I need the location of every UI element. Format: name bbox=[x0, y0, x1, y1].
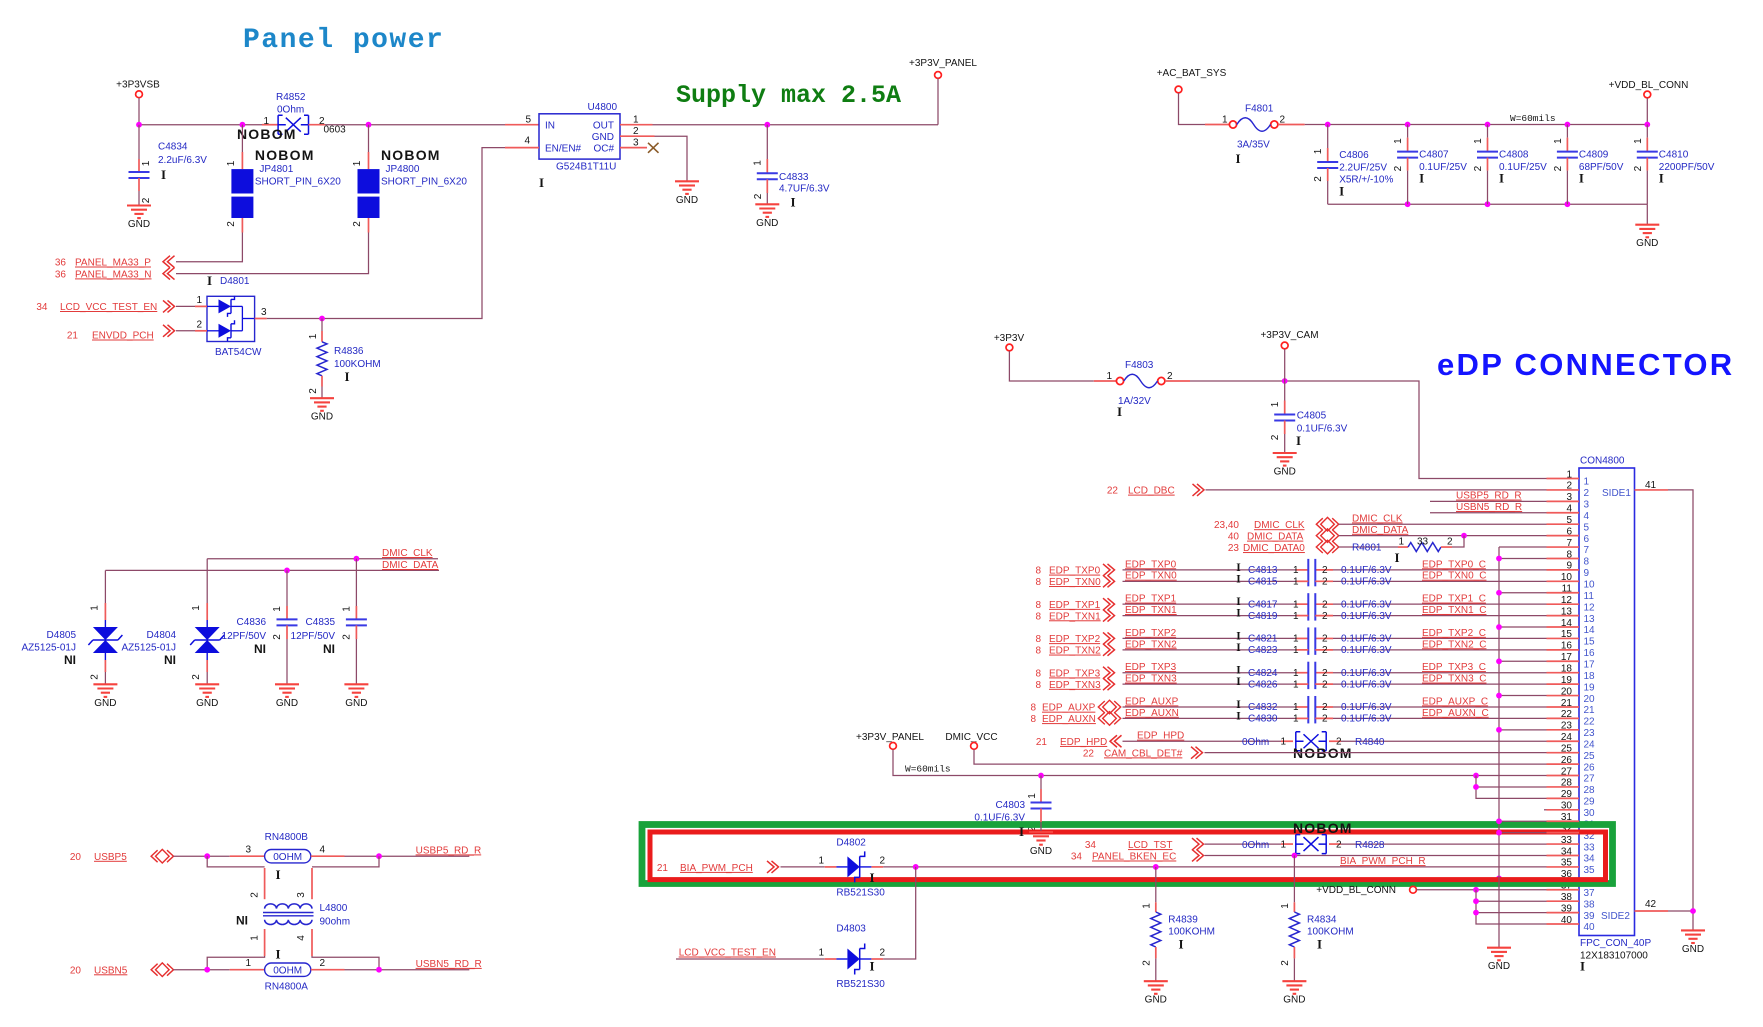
svg-text:GND: GND bbox=[128, 219, 150, 230]
svg-text:1: 1 bbox=[1293, 634, 1299, 645]
svg-text:RB521S30: RB521S30 bbox=[836, 979, 885, 990]
svg-text:I: I bbox=[1419, 171, 1424, 186]
svg-text:C4807: C4807 bbox=[1419, 150, 1449, 161]
svg-text:DMIC_DATA: DMIC_DATA bbox=[1352, 525, 1409, 536]
svg-text:NI: NI bbox=[236, 914, 248, 928]
svg-text:EDP_TXN0: EDP_TXN0 bbox=[1049, 577, 1101, 588]
svg-text:I: I bbox=[275, 947, 280, 962]
svg-text:16: 16 bbox=[1584, 648, 1596, 659]
svg-text:NI: NI bbox=[323, 642, 335, 656]
svg-text:I: I bbox=[1236, 596, 1241, 608]
svg-text:1: 1 bbox=[89, 605, 100, 611]
svg-text:2: 2 bbox=[1322, 714, 1328, 725]
svg-text:23: 23 bbox=[1228, 543, 1240, 554]
svg-text:C4806: C4806 bbox=[1339, 150, 1369, 161]
svg-text:1: 1 bbox=[308, 333, 319, 339]
svg-text:2: 2 bbox=[1322, 634, 1328, 645]
svg-text:6: 6 bbox=[1584, 534, 1590, 545]
svg-text:1: 1 bbox=[1270, 401, 1281, 407]
svg-text:DMIC_DATA: DMIC_DATA bbox=[382, 560, 439, 571]
svg-text:8: 8 bbox=[1030, 714, 1036, 725]
svg-text:2: 2 bbox=[1393, 165, 1404, 171]
svg-text:I: I bbox=[1019, 824, 1024, 839]
svg-text:NI: NI bbox=[164, 653, 176, 667]
svg-text:2: 2 bbox=[1322, 565, 1328, 576]
svg-text:2.2uF/6.3V: 2.2uF/6.3V bbox=[158, 155, 207, 166]
svg-text:2: 2 bbox=[1322, 645, 1328, 656]
svg-text:2: 2 bbox=[308, 388, 319, 394]
svg-text:DMIC_CLK: DMIC_CLK bbox=[1352, 513, 1403, 524]
svg-text:I: I bbox=[869, 870, 874, 885]
svg-text:I: I bbox=[1117, 404, 1122, 419]
svg-text:C4834: C4834 bbox=[158, 142, 188, 153]
svg-text:2: 2 bbox=[141, 197, 152, 203]
svg-text:C4821: C4821 bbox=[1248, 634, 1278, 645]
svg-text:4: 4 bbox=[524, 136, 530, 147]
svg-text:9: 9 bbox=[1584, 568, 1590, 579]
svg-text:ENVDD_PCH: ENVDD_PCH bbox=[92, 331, 154, 342]
svg-text:I: I bbox=[1236, 630, 1241, 642]
svg-text:0.1UF/6.3V: 0.1UF/6.3V bbox=[1341, 611, 1392, 622]
svg-text:I: I bbox=[1236, 573, 1241, 585]
svg-text:10: 10 bbox=[1584, 580, 1596, 591]
svg-text:R4840: R4840 bbox=[1355, 737, 1385, 748]
svg-text:AZ5125-01J: AZ5125-01J bbox=[122, 643, 176, 654]
svg-text:26: 26 bbox=[1584, 762, 1596, 773]
svg-text:4.7UF/6.3V: 4.7UF/6.3V bbox=[779, 184, 830, 195]
svg-text:1: 1 bbox=[1280, 736, 1286, 747]
svg-text:IN: IN bbox=[545, 120, 555, 131]
svg-text:EDP_TXN3_C: EDP_TXN3_C bbox=[1422, 674, 1486, 685]
svg-text:1: 1 bbox=[1142, 903, 1153, 909]
svg-text:RN4800A: RN4800A bbox=[265, 982, 309, 993]
svg-text:40: 40 bbox=[1228, 532, 1240, 543]
svg-text:0.1UF/6.3V: 0.1UF/6.3V bbox=[1341, 702, 1392, 713]
svg-text:12X183107000: 12X183107000 bbox=[1580, 950, 1648, 961]
svg-text:GND: GND bbox=[1030, 846, 1052, 857]
svg-text:1: 1 bbox=[250, 935, 261, 941]
svg-text:I: I bbox=[1235, 151, 1240, 166]
svg-text:2200PF/50V: 2200PF/50V bbox=[1659, 162, 1715, 173]
svg-text:SHORT_PIN_6X20: SHORT_PIN_6X20 bbox=[255, 177, 341, 188]
svg-text:+3P3VSB: +3P3VSB bbox=[116, 80, 160, 91]
svg-text:39: 39 bbox=[1584, 911, 1596, 922]
svg-text:EDP_TXP1: EDP_TXP1 bbox=[1125, 594, 1177, 605]
svg-text:W=60mils: W=60mils bbox=[905, 764, 951, 775]
svg-text:1: 1 bbox=[1293, 645, 1299, 656]
svg-text:EDP_TXN1: EDP_TXN1 bbox=[1049, 611, 1101, 622]
svg-text:23: 23 bbox=[1584, 728, 1596, 739]
svg-text:1: 1 bbox=[1313, 148, 1324, 154]
svg-text:FPC_CON_40P: FPC_CON_40P bbox=[1580, 938, 1651, 949]
svg-text:C4808: C4808 bbox=[1499, 150, 1529, 161]
svg-text:100KOHM: 100KOHM bbox=[1168, 927, 1215, 938]
svg-text:DMIC_DATA: DMIC_DATA bbox=[1247, 532, 1304, 543]
svg-text:34: 34 bbox=[1071, 851, 1083, 862]
svg-text:EN/EN#: EN/EN# bbox=[545, 143, 582, 154]
svg-text:2: 2 bbox=[1553, 165, 1564, 171]
svg-text:EDP_AUXN_C: EDP_AUXN_C bbox=[1422, 708, 1489, 719]
svg-text:2: 2 bbox=[196, 320, 202, 331]
svg-text:+3P3V_PANEL: +3P3V_PANEL bbox=[856, 732, 924, 743]
svg-text:0.1UF/25V: 0.1UF/25V bbox=[1419, 162, 1467, 173]
svg-text:F4801: F4801 bbox=[1245, 104, 1274, 115]
svg-text:3: 3 bbox=[633, 137, 639, 148]
svg-text:29: 29 bbox=[1584, 797, 1596, 808]
svg-text:D4804: D4804 bbox=[147, 630, 177, 641]
svg-text:2: 2 bbox=[1280, 960, 1291, 966]
svg-text:BAT54CW: BAT54CW bbox=[215, 347, 262, 358]
svg-text:PANEL_MA33_P: PANEL_MA33_P bbox=[75, 258, 151, 269]
svg-text:1A/32V: 1A/32V bbox=[1118, 396, 1151, 407]
svg-text:2: 2 bbox=[753, 193, 764, 199]
svg-text:0.1UF/6.3V: 0.1UF/6.3V bbox=[974, 813, 1025, 824]
svg-text:0Ohm: 0Ohm bbox=[1242, 840, 1269, 851]
svg-text:C4809: C4809 bbox=[1579, 150, 1609, 161]
svg-text:2: 2 bbox=[1142, 960, 1153, 966]
svg-text:1: 1 bbox=[818, 948, 824, 959]
svg-text:2: 2 bbox=[1313, 176, 1324, 182]
svg-text:EDP_TXN3: EDP_TXN3 bbox=[1049, 680, 1101, 691]
svg-text:0603: 0603 bbox=[324, 125, 347, 136]
svg-text:1: 1 bbox=[1293, 611, 1299, 622]
svg-text:C4813: C4813 bbox=[1248, 565, 1278, 576]
svg-text:I: I bbox=[1178, 937, 1183, 952]
svg-text:13: 13 bbox=[1584, 614, 1596, 625]
svg-text:1: 1 bbox=[818, 856, 824, 867]
svg-text:4: 4 bbox=[296, 935, 307, 941]
svg-text:U4800: U4800 bbox=[588, 102, 618, 113]
svg-text:USBP5_RD_R: USBP5_RD_R bbox=[1456, 491, 1522, 502]
svg-text:EDP_TXN2: EDP_TXN2 bbox=[1049, 646, 1101, 657]
svg-text:R4852: R4852 bbox=[276, 92, 306, 103]
svg-text:2: 2 bbox=[250, 892, 261, 898]
svg-text:2: 2 bbox=[226, 221, 237, 227]
svg-text:I: I bbox=[790, 195, 795, 210]
svg-text:21: 21 bbox=[657, 863, 669, 874]
svg-text:23,40: 23,40 bbox=[1214, 520, 1239, 531]
svg-text:24: 24 bbox=[1584, 739, 1596, 750]
svg-text:EDP_HPD: EDP_HPD bbox=[1137, 731, 1184, 742]
svg-text:C4817: C4817 bbox=[1248, 599, 1278, 610]
svg-text:0Ohm: 0Ohm bbox=[277, 105, 304, 116]
svg-text:C4805: C4805 bbox=[1297, 411, 1327, 422]
svg-text:20: 20 bbox=[1584, 694, 1596, 705]
svg-text:EDP_TXN2: EDP_TXN2 bbox=[1125, 639, 1177, 650]
svg-text:2: 2 bbox=[341, 634, 352, 640]
svg-text:C4824: C4824 bbox=[1248, 668, 1278, 679]
svg-text:I: I bbox=[1236, 562, 1241, 574]
svg-text:Panel power: Panel power bbox=[243, 25, 444, 56]
svg-text:CAM_CBL_DET#: CAM_CBL_DET# bbox=[1104, 748, 1183, 759]
svg-text:68PF/50V: 68PF/50V bbox=[1579, 162, 1624, 173]
svg-text:GND: GND bbox=[676, 195, 698, 206]
svg-text:2: 2 bbox=[1633, 165, 1644, 171]
svg-text:2: 2 bbox=[1270, 434, 1281, 440]
svg-text:EDP_AUXN: EDP_AUXN bbox=[1125, 708, 1179, 719]
svg-text:C4823: C4823 bbox=[1248, 645, 1278, 656]
svg-text:1: 1 bbox=[196, 295, 202, 306]
svg-text:3: 3 bbox=[296, 892, 307, 898]
svg-text:2: 2 bbox=[1322, 577, 1328, 588]
svg-text:1: 1 bbox=[1293, 702, 1299, 713]
svg-text:27: 27 bbox=[1584, 774, 1596, 785]
svg-text:PANEL_BKEN_EC: PANEL_BKEN_EC bbox=[1092, 851, 1176, 862]
svg-text:0.1UF/25V: 0.1UF/25V bbox=[1499, 162, 1547, 173]
svg-text:USBN5_RD_R: USBN5_RD_R bbox=[1456, 502, 1522, 513]
svg-text:12PF/50V: 12PF/50V bbox=[222, 631, 267, 642]
svg-text:0.1UF/6.3V: 0.1UF/6.3V bbox=[1341, 577, 1392, 588]
svg-text:0.1UF/6.3V: 0.1UF/6.3V bbox=[1297, 424, 1348, 435]
svg-text:2: 2 bbox=[1322, 668, 1328, 679]
svg-text:+3P3V_CAM: +3P3V_CAM bbox=[1260, 330, 1318, 341]
svg-text:GND: GND bbox=[1682, 944, 1704, 955]
svg-text:W=60mils: W=60mils bbox=[1510, 113, 1556, 124]
svg-text:JP4801: JP4801 bbox=[259, 164, 293, 175]
svg-text:NOBOM: NOBOM bbox=[237, 126, 297, 142]
svg-text:EDP_TXP2_C: EDP_TXP2_C bbox=[1422, 628, 1486, 639]
svg-text:R4836: R4836 bbox=[334, 346, 364, 357]
svg-text:1: 1 bbox=[1280, 903, 1291, 909]
svg-text:11: 11 bbox=[1584, 591, 1595, 602]
svg-text:I: I bbox=[344, 369, 349, 384]
svg-text:GND: GND bbox=[1145, 995, 1167, 1006]
svg-text:I: I bbox=[275, 867, 280, 882]
svg-text:C4819: C4819 bbox=[1248, 611, 1278, 622]
svg-text:2: 2 bbox=[1584, 488, 1590, 499]
svg-text:X5R/+/-10%: X5R/+/-10% bbox=[1339, 175, 1393, 186]
svg-text:0Ohm: 0Ohm bbox=[1242, 737, 1269, 748]
svg-text:LCD_TST: LCD_TST bbox=[1128, 840, 1172, 851]
svg-text:0.1UF/6.3V: 0.1UF/6.3V bbox=[1341, 565, 1392, 576]
svg-text:25: 25 bbox=[1584, 751, 1596, 762]
svg-text:C4835: C4835 bbox=[306, 617, 336, 628]
svg-text:+VDD_BL_CONN: +VDD_BL_CONN bbox=[1316, 885, 1396, 896]
svg-text:1: 1 bbox=[1393, 138, 1404, 144]
svg-text:+AC_BAT_SYS: +AC_BAT_SYS bbox=[1157, 68, 1227, 79]
svg-text:GND: GND bbox=[1274, 467, 1296, 478]
svg-text:D4802: D4802 bbox=[836, 838, 866, 849]
svg-text:0.1UF/6.3V: 0.1UF/6.3V bbox=[1341, 668, 1392, 679]
svg-text:GND: GND bbox=[1636, 238, 1658, 249]
svg-text:+VDD_BL_CONN: +VDD_BL_CONN bbox=[1609, 80, 1689, 91]
svg-text:1: 1 bbox=[341, 606, 352, 612]
svg-text:34: 34 bbox=[1085, 840, 1097, 851]
svg-text:2: 2 bbox=[1280, 115, 1286, 126]
svg-text:2: 2 bbox=[352, 221, 363, 227]
svg-text:D4801: D4801 bbox=[220, 276, 250, 287]
svg-text:2: 2 bbox=[1447, 537, 1453, 548]
svg-text:D4803: D4803 bbox=[836, 924, 866, 935]
svg-text:28: 28 bbox=[1584, 785, 1596, 796]
svg-text:5: 5 bbox=[1584, 522, 1590, 533]
svg-text:USBN5_RD_R: USBN5_RD_R bbox=[416, 959, 482, 970]
svg-text:EDP_AUXP_C: EDP_AUXP_C bbox=[1422, 696, 1488, 707]
svg-text:8: 8 bbox=[1035, 577, 1041, 588]
svg-text:LCD_VCC_TEST_EN: LCD_VCC_TEST_EN bbox=[60, 302, 157, 313]
svg-text:I: I bbox=[1499, 171, 1504, 186]
svg-text:DMIC_VCC: DMIC_VCC bbox=[945, 732, 997, 743]
svg-text:GND: GND bbox=[592, 132, 614, 143]
svg-text:EDP_TXP2: EDP_TXP2 bbox=[1049, 634, 1101, 645]
svg-text:37: 37 bbox=[1584, 888, 1596, 899]
svg-text:C4832: C4832 bbox=[1248, 702, 1278, 713]
svg-text:EDP_AUXN: EDP_AUXN bbox=[1042, 714, 1096, 725]
svg-text:OC#: OC# bbox=[593, 143, 614, 154]
svg-text:NOBOM: NOBOM bbox=[1293, 820, 1353, 836]
svg-text:1: 1 bbox=[1280, 839, 1286, 850]
svg-text:AZ5125-01J: AZ5125-01J bbox=[22, 643, 76, 654]
svg-text:USBN5: USBN5 bbox=[94, 965, 128, 976]
svg-text:EDP_TXP0: EDP_TXP0 bbox=[1125, 559, 1177, 570]
svg-text:NI: NI bbox=[64, 653, 76, 667]
svg-text:C4826: C4826 bbox=[1248, 679, 1278, 690]
svg-text:eDP CONNECTOR: eDP CONNECTOR bbox=[1437, 347, 1734, 382]
svg-text:USBP5_RD_R: USBP5_RD_R bbox=[416, 845, 482, 856]
svg-text:40: 40 bbox=[1584, 922, 1596, 933]
svg-text:RN4800B: RN4800B bbox=[265, 832, 309, 843]
svg-text:I: I bbox=[161, 167, 166, 182]
svg-text:BIA_PWM_PCH: BIA_PWM_PCH bbox=[680, 863, 753, 874]
svg-text:EDP_TXP2: EDP_TXP2 bbox=[1125, 628, 1177, 639]
svg-text:8: 8 bbox=[1035, 646, 1041, 657]
svg-text:100KOHM: 100KOHM bbox=[1307, 927, 1354, 938]
svg-text:21: 21 bbox=[67, 331, 79, 342]
svg-text:EDP_TXN3: EDP_TXN3 bbox=[1125, 674, 1177, 685]
svg-text:1: 1 bbox=[1473, 138, 1484, 144]
svg-text:21: 21 bbox=[1036, 737, 1048, 748]
svg-text:EDP_TXN0: EDP_TXN0 bbox=[1125, 571, 1177, 582]
svg-text:1: 1 bbox=[1222, 115, 1228, 126]
svg-text:34: 34 bbox=[1584, 854, 1596, 865]
svg-text:8: 8 bbox=[1584, 557, 1590, 568]
svg-text:30: 30 bbox=[1584, 808, 1596, 819]
svg-text:D4805: D4805 bbox=[47, 630, 77, 641]
svg-text:JP4800: JP4800 bbox=[386, 164, 420, 175]
svg-text:1: 1 bbox=[141, 160, 152, 166]
svg-text:GND: GND bbox=[1488, 961, 1510, 972]
svg-text:0.1UF/6.3V: 0.1UF/6.3V bbox=[1341, 645, 1392, 656]
svg-text:1: 1 bbox=[1293, 577, 1299, 588]
svg-text:21: 21 bbox=[1584, 705, 1596, 716]
svg-text:+3P3V_PANEL: +3P3V_PANEL bbox=[909, 58, 977, 69]
svg-text:1: 1 bbox=[352, 160, 363, 166]
svg-text:15: 15 bbox=[1584, 637, 1596, 648]
svg-text:2: 2 bbox=[1322, 611, 1328, 622]
svg-text:0.1UF/6.3V: 0.1UF/6.3V bbox=[1341, 714, 1392, 725]
svg-text:EDP_TXP3: EDP_TXP3 bbox=[1049, 668, 1101, 679]
svg-text:GND: GND bbox=[1283, 995, 1305, 1006]
svg-text:C4815: C4815 bbox=[1248, 577, 1278, 588]
svg-text:3A/35V: 3A/35V bbox=[1237, 140, 1270, 151]
svg-text:12PF/50V: 12PF/50V bbox=[291, 631, 336, 642]
svg-text:90ohm: 90ohm bbox=[320, 917, 351, 928]
svg-text:4: 4 bbox=[1584, 511, 1590, 522]
svg-text:I: I bbox=[1236, 676, 1241, 688]
svg-text:SIDE2: SIDE2 bbox=[1601, 911, 1630, 922]
svg-text:8: 8 bbox=[1035, 600, 1041, 611]
svg-text:20: 20 bbox=[70, 965, 82, 976]
svg-text:EDP_TXN2_C: EDP_TXN2_C bbox=[1422, 639, 1486, 650]
svg-text:+3P3V: +3P3V bbox=[994, 333, 1025, 344]
svg-text:22: 22 bbox=[1584, 717, 1596, 728]
svg-text:C4833: C4833 bbox=[779, 172, 809, 183]
svg-text:I: I bbox=[1317, 937, 1322, 952]
svg-text:OUT: OUT bbox=[593, 120, 614, 131]
svg-text:2: 2 bbox=[89, 674, 100, 680]
svg-text:DMIC_DATA0: DMIC_DATA0 bbox=[1243, 543, 1305, 554]
svg-text:2: 2 bbox=[1336, 839, 1342, 850]
svg-text:2: 2 bbox=[1473, 165, 1484, 171]
svg-text:5: 5 bbox=[525, 115, 531, 126]
svg-text:USBP5: USBP5 bbox=[94, 852, 127, 863]
svg-text:33: 33 bbox=[1584, 842, 1596, 853]
svg-text:2: 2 bbox=[320, 958, 326, 969]
svg-text:I: I bbox=[207, 273, 212, 288]
svg-text:12: 12 bbox=[1584, 602, 1596, 613]
svg-text:100KOHM: 100KOHM bbox=[334, 359, 381, 370]
svg-text:EDP_TXN1: EDP_TXN1 bbox=[1125, 605, 1177, 616]
svg-text:CON4800: CON4800 bbox=[1580, 456, 1625, 467]
svg-text:36: 36 bbox=[55, 269, 67, 280]
svg-text:2: 2 bbox=[880, 856, 886, 867]
svg-text:22: 22 bbox=[1083, 748, 1095, 759]
svg-text:42: 42 bbox=[1645, 899, 1657, 910]
svg-text:1: 1 bbox=[226, 160, 237, 166]
svg-text:Supply max 2.5A: Supply max 2.5A bbox=[676, 81, 901, 110]
svg-text:R4801: R4801 bbox=[1352, 543, 1382, 554]
svg-text:BIA_PWM_PCH_R: BIA_PWM_PCH_R bbox=[1340, 856, 1426, 867]
svg-text:1: 1 bbox=[1398, 537, 1404, 548]
svg-text:20: 20 bbox=[70, 852, 82, 863]
svg-text:4: 4 bbox=[320, 845, 326, 856]
svg-text:19: 19 bbox=[1584, 682, 1596, 693]
svg-text:1: 1 bbox=[1106, 371, 1112, 382]
svg-text:EDP_TXP0: EDP_TXP0 bbox=[1049, 566, 1101, 577]
svg-text:EDP_TXP1_C: EDP_TXP1_C bbox=[1422, 594, 1486, 605]
svg-text:0.1UF/6.3V: 0.1UF/6.3V bbox=[1341, 599, 1392, 610]
svg-text:I: I bbox=[1236, 699, 1241, 711]
svg-text:L4800: L4800 bbox=[320, 903, 348, 914]
svg-text:EDP_TXP3: EDP_TXP3 bbox=[1125, 662, 1177, 673]
svg-text:EDP_TXN1_C: EDP_TXN1_C bbox=[1422, 605, 1486, 616]
svg-text:0OHM: 0OHM bbox=[273, 965, 302, 976]
svg-text:I: I bbox=[539, 175, 544, 190]
svg-text:2.2UF/25V: 2.2UF/25V bbox=[1339, 163, 1387, 174]
svg-text:1: 1 bbox=[1293, 565, 1299, 576]
svg-text:2: 2 bbox=[191, 674, 202, 680]
svg-text:GND: GND bbox=[756, 218, 778, 229]
svg-text:R4834: R4834 bbox=[1307, 914, 1337, 925]
svg-text:LCD_VCC_TEST_EN: LCD_VCC_TEST_EN bbox=[679, 948, 776, 959]
svg-text:GND: GND bbox=[196, 698, 218, 709]
svg-text:18: 18 bbox=[1584, 671, 1596, 682]
svg-text:NOBOM: NOBOM bbox=[381, 147, 441, 163]
svg-text:I: I bbox=[1236, 710, 1241, 722]
svg-text:14: 14 bbox=[1584, 625, 1596, 636]
svg-text:EDP_TXP1: EDP_TXP1 bbox=[1049, 600, 1101, 611]
svg-text:36: 36 bbox=[55, 258, 67, 269]
svg-text:SHORT_PIN_6X20: SHORT_PIN_6X20 bbox=[381, 177, 467, 188]
svg-text:7: 7 bbox=[1584, 545, 1590, 556]
svg-text:PANEL_MA33_N: PANEL_MA33_N bbox=[75, 269, 152, 280]
svg-text:R4828: R4828 bbox=[1355, 840, 1385, 851]
svg-text:I: I bbox=[1296, 433, 1301, 448]
svg-text:LCD_DBC: LCD_DBC bbox=[1128, 486, 1175, 497]
svg-text:NI: NI bbox=[254, 642, 266, 656]
svg-text:1: 1 bbox=[245, 958, 251, 969]
svg-text:0.1UF/6.3V: 0.1UF/6.3V bbox=[1341, 679, 1392, 690]
